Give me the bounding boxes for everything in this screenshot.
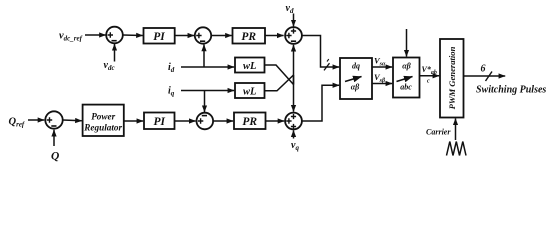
wire i_d branch up to S2 bottom: [203, 45, 205, 67]
svg-text:vdc_ref: vdc_ref: [59, 31, 83, 43]
wire PR1 to summing junction S3: [265, 35, 284, 37]
block PI2: [144, 113, 175, 130]
wire Q to S4 bottom: [53, 130, 55, 146]
svg-text:id: id: [168, 62, 175, 74]
svg-text:αβ: αβ: [351, 83, 360, 92]
wire Q_ref to summing junction S4: [28, 119, 44, 121]
wire Power Regulator to PI2: [124, 120, 143, 122]
wire i_q branch down to S5 top: [204, 91, 206, 113]
svg-text:αβ: αβ: [402, 62, 411, 71]
wire theta into alpha-beta/abc block top: [406, 29, 408, 57]
wire PI1 to summing junction S2: [175, 35, 195, 37]
wire S1 to PI1: [123, 34, 143, 37]
wire S4 to Power Regulator: [63, 119, 82, 122]
wire PI2 to summing junction S5: [175, 120, 196, 122]
wire i_q to wL2: [181, 90, 234, 92]
svg-text:iq: iq: [168, 86, 175, 98]
svg-text:abc: abc: [400, 83, 412, 92]
summing junction S4: [45, 111, 62, 128]
block PI1: [144, 28, 175, 44]
svg-text:PI: PI: [153, 31, 165, 43]
wire V_s_beta dq to ab/abc: [372, 83, 392, 85]
svg-text:c: c: [427, 79, 430, 85]
summing junction S2: [195, 27, 211, 43]
svg-text:wL: wL: [243, 61, 256, 72]
summing junction S6: [285, 113, 302, 130]
wire carrier to PWM bottom: [455, 119, 457, 141]
bus slash on S3 output wire: [324, 63, 330, 70]
wire v_dc_ref to summing junction S1: [85, 34, 106, 36]
svg-text:Q: Q: [51, 151, 59, 163]
wire i_d to wL1: [181, 66, 234, 68]
svg-text:Vsβ: Vsβ: [374, 72, 386, 84]
svg-text:PWM Generation: PWM Generation: [447, 46, 457, 109]
wire V*_abc to PWM Generation: [420, 75, 440, 77]
svg-text:PI: PI: [153, 116, 165, 128]
wire S3 output to dq block (bus): [302, 36, 339, 68]
svg-text:PR: PR: [241, 31, 256, 43]
summing junction S5: [197, 113, 214, 130]
svg-text:Switching Pulses: Switching Pulses: [476, 85, 546, 96]
svg-text:dq: dq: [352, 62, 360, 71]
wire S5 to PR2: [213, 120, 233, 122]
svg-text:Carrier: Carrier: [426, 128, 451, 137]
carrier triangle wave symbol: [447, 142, 467, 156]
block wL2: [235, 83, 265, 98]
svg-text:Regulator: Regulator: [83, 123, 122, 133]
wire S2 to PR1: [211, 35, 232, 37]
wire PR2 to summing junction S6: [266, 120, 285, 122]
svg-text:vq: vq: [291, 140, 299, 152]
summing junction S3: [285, 27, 302, 44]
svg-text:PR: PR: [242, 116, 257, 128]
wire cross vertical into S3 bottom: [293, 45, 295, 85]
block alpha-beta to abc transform: [393, 58, 420, 98]
wire v_dc to S1 bottom: [114, 44, 116, 62]
bus slash 6 on output: [486, 72, 493, 82]
wire cross vertical into S6 top: [293, 75, 295, 112]
svg-text:vdc: vdc: [104, 60, 115, 72]
block PR2: [234, 113, 266, 130]
block Power Regulator: [83, 105, 124, 136]
wire v_q to S6 bottom: [293, 130, 295, 138]
wire wL2 output cross-coupling up to S3: [265, 75, 294, 91]
svg-text:V*ab: V*ab: [422, 65, 437, 76]
svg-text:Qref: Qref: [9, 117, 25, 129]
block dq to alpha-beta transform: [340, 58, 372, 99]
block PR1: [233, 28, 266, 44]
wire S6 output to dq block bottom input: [302, 85, 339, 121]
svg-text:Vsα: Vsα: [374, 56, 386, 68]
wire v_d to S3 top: [293, 14, 295, 27]
summing junction S1: [106, 27, 123, 44]
block wL1: [235, 58, 265, 73]
node V*_abc: [422, 65, 437, 85]
svg-text:vd: vd: [286, 3, 294, 15]
svg-text:wL: wL: [243, 86, 256, 97]
wire V_s_alpha dq to ab/abc: [372, 66, 392, 68]
block PWM Generation: [440, 39, 464, 118]
bus tick label: [327, 59, 329, 61]
svg-text:Power: Power: [91, 112, 115, 122]
svg-text:6: 6: [481, 64, 486, 75]
wire PWM output switching pulses: [464, 75, 506, 77]
wire wL1 output cross-coupling down to S6: [265, 65, 294, 85]
